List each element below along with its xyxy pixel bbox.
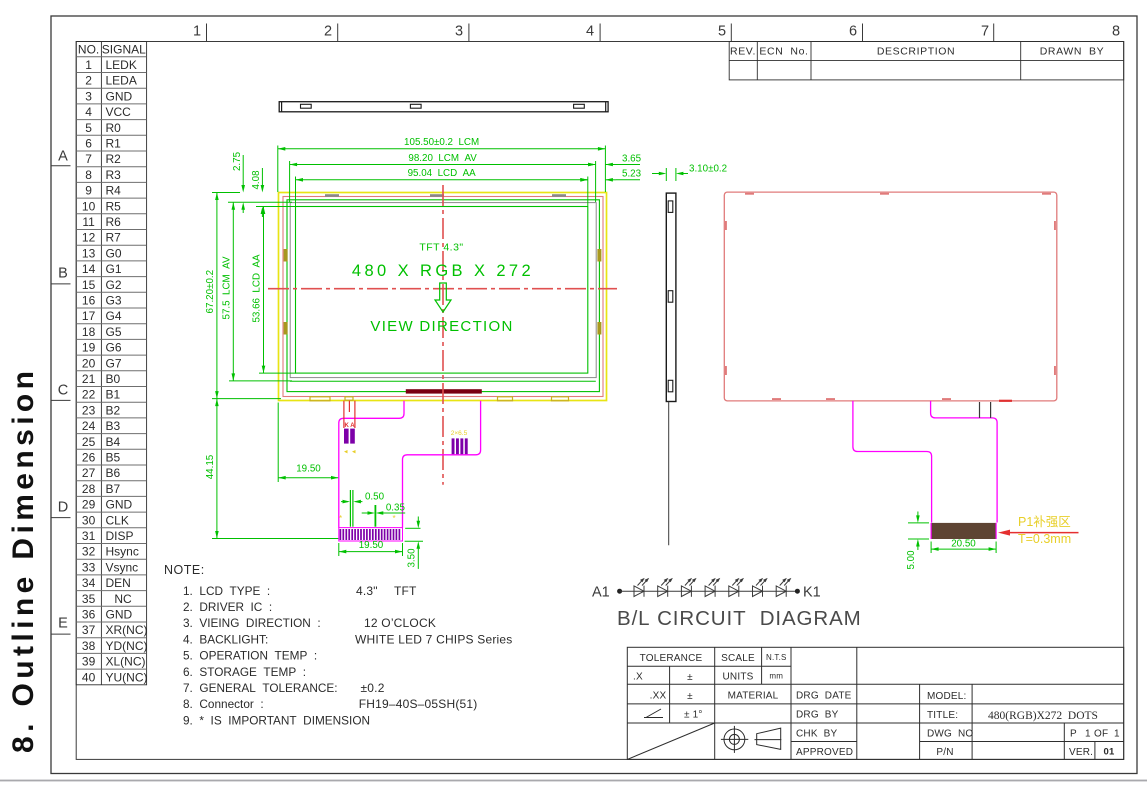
dim 53.66 LCD AA <box>252 207 266 374</box>
svg-text:NC: NC <box>114 592 132 606</box>
dim 0.35 <box>362 503 406 527</box>
svg-text:WHITE LED 7 CHIPS Series: WHITE LED 7 CHIPS Series <box>355 632 513 646</box>
bottom edge tabs <box>310 397 569 401</box>
svg-text:34: 34 <box>82 576 96 590</box>
svg-text:◂: ◂ <box>352 449 356 456</box>
svg-text:27: 27 <box>82 466 96 480</box>
svg-text:9: 9 <box>85 184 92 198</box>
LED D7 <box>776 579 790 597</box>
dim 19.50 upper <box>278 463 338 479</box>
svg-text:2×6.5: 2×6.5 <box>451 430 468 437</box>
horizontal centerline <box>268 288 617 290</box>
dim 67.20 <box>205 193 219 399</box>
LCD glass outline (grey) <box>290 203 596 378</box>
LED D3 <box>681 579 695 597</box>
notes list <box>183 584 513 728</box>
dim 57.5 LCM AV <box>221 202 235 381</box>
svg-text:2. DRIVER IC :: 2. DRIVER IC : <box>183 600 272 614</box>
dim 5.23 <box>580 169 641 182</box>
svg-text:MODEL:: MODEL: <box>927 691 967 702</box>
svg-text:A: A <box>58 149 68 165</box>
svg-text:B1: B1 <box>106 388 121 402</box>
svg-text:B6: B6 <box>106 466 121 480</box>
svg-text:6: 6 <box>849 24 857 40</box>
svg-text:3: 3 <box>85 89 92 103</box>
svg-text:8. Connector :: 8. Connector : <box>183 697 264 711</box>
svg-text:B2: B2 <box>106 403 121 417</box>
svg-text:1: 1 <box>193 24 201 40</box>
svg-text:TOLERANCE: TOLERANCE <box>640 653 703 664</box>
svg-text:NOTE:: NOTE: <box>164 563 205 577</box>
svg-text:22: 22 <box>82 388 96 402</box>
svg-text:30: 30 <box>82 513 96 527</box>
svg-text:REV.: REV. <box>730 46 756 58</box>
svg-text:38: 38 <box>82 639 96 653</box>
svg-text:15: 15 <box>82 278 96 292</box>
svg-text:DRG BY: DRG BY <box>796 710 839 721</box>
svg-text:R2: R2 <box>106 152 122 166</box>
svg-text:2: 2 <box>85 74 92 88</box>
dim 20.50 <box>931 539 996 553</box>
svg-text:R5: R5 <box>106 199 122 213</box>
svg-text:9. * IS IMPORTANT DIMENSIO: 9. * IS IMPORTANT DIMENSION <box>183 713 370 727</box>
svg-text:23: 23 <box>82 403 96 417</box>
svg-text:R6: R6 <box>106 215 122 229</box>
svg-text:TFT 4.3": TFT 4.3" <box>419 242 463 254</box>
dim 4.08 <box>251 168 264 217</box>
dim 95.04 LCD AA <box>296 168 588 181</box>
svg-text:8: 8 <box>85 168 92 182</box>
svg-text:40: 40 <box>82 670 96 684</box>
svg-text:2.75: 2.75 <box>232 151 243 171</box>
svg-text:G7: G7 <box>106 356 122 370</box>
svg-text:FH19–40S–05SH(51): FH19–40S–05SH(51) <box>359 697 478 711</box>
svg-text:G1: G1 <box>106 262 122 276</box>
LCM module outline (yellow bezel) <box>279 193 607 401</box>
wire <box>620 590 798 592</box>
svg-text:1: 1 <box>85 58 92 72</box>
LED D6 <box>753 579 767 597</box>
svg-text:5.00: 5.00 <box>906 550 917 570</box>
svg-text:DESCRIPTION: DESCRIPTION <box>877 46 955 58</box>
LCD AA rect (green) <box>296 207 588 374</box>
svg-text:±: ± <box>687 691 693 702</box>
zone column numbers 1-8 <box>193 24 1120 40</box>
svg-text:4.3": 4.3" <box>356 584 378 598</box>
svg-text:G0: G0 <box>106 246 122 260</box>
svg-text:3.50: 3.50 <box>406 548 417 568</box>
pin table grid <box>76 42 146 685</box>
dim 5.00 <box>906 512 929 570</box>
svg-text:19.50: 19.50 <box>296 463 321 474</box>
svg-text:NO.: NO. <box>78 43 99 57</box>
svg-text:DRAWN BY: DRAWN BY <box>1040 46 1105 58</box>
svg-text:8: 8 <box>1112 24 1120 40</box>
svg-text:11: 11 <box>82 215 95 229</box>
svg-text:98.20 LCM AV: 98.20 LCM AV <box>408 153 477 164</box>
svg-text:SIGNAL: SIGNAL <box>102 43 146 57</box>
svg-text:3. VIEING DIRECTION :: 3. VIEING DIRECTION : <box>183 616 321 630</box>
svg-text:14: 14 <box>82 262 96 276</box>
svg-text:5.23: 5.23 <box>622 169 642 180</box>
svg-text:10: 10 <box>82 199 96 213</box>
middle connector pads (purple) <box>452 438 468 454</box>
svg-text:36: 36 <box>82 608 96 622</box>
svg-text:G5: G5 <box>106 325 122 339</box>
svg-text:1: 1 <box>1114 729 1120 740</box>
svg-text:UNITS: UNITS <box>723 672 754 683</box>
svg-text:DISP: DISP <box>106 529 134 543</box>
svg-text:B7: B7 <box>106 482 121 496</box>
svg-text:25: 25 <box>82 435 96 449</box>
svg-text:B/L CIRCUIT DIAGRAM: B/L CIRCUIT DIAGRAM <box>617 607 862 630</box>
dim 3.50 <box>405 517 423 569</box>
svg-text:APPROVED: APPROVED <box>796 747 853 758</box>
dim extension lines top <box>278 146 606 207</box>
svg-text:3.65: 3.65 <box>622 153 642 164</box>
svg-text:XL(NC): XL(NC) <box>106 655 146 669</box>
svg-text:480 X RGB X 272: 480 X RGB X 272 <box>352 262 534 280</box>
svg-text:24: 24 <box>82 419 96 433</box>
svg-text:1. LCD TYPE :: 1. LCD TYPE : <box>183 584 270 598</box>
svg-text:± 1°: ± 1° <box>684 710 703 721</box>
svg-text:±: ± <box>687 672 693 683</box>
svg-text:32: 32 <box>82 545 96 559</box>
svg-text:B: B <box>58 266 68 282</box>
svg-text:R7: R7 <box>106 231 122 245</box>
svg-text:G4: G4 <box>106 309 122 323</box>
svg-text:B5: B5 <box>106 451 121 465</box>
svg-text:D: D <box>58 500 68 516</box>
svg-text:16: 16 <box>82 294 96 308</box>
svg-text:OF: OF <box>1094 729 1108 740</box>
svg-text:7: 7 <box>85 152 92 166</box>
svg-text:0.50: 0.50 <box>365 491 385 502</box>
svg-text:B4: B4 <box>106 435 121 449</box>
svg-text:K A: K A <box>344 423 355 429</box>
projection symbol circle <box>721 726 748 753</box>
svg-text:GND: GND <box>106 89 133 103</box>
svg-text:18: 18 <box>82 325 96 339</box>
svg-text:DRG DATE: DRG DATE <box>796 691 852 702</box>
svg-text:Vsync: Vsync <box>106 560 139 574</box>
svg-text:2: 2 <box>324 24 332 40</box>
zone row letters A-E <box>58 149 68 632</box>
svg-text:44.15: 44.15 <box>205 454 216 479</box>
dim 105.50 LCM <box>278 137 606 150</box>
zone column tick marks <box>207 24 994 42</box>
svg-text:95.04 LCD AA: 95.04 LCD AA <box>408 168 477 179</box>
angle symbol <box>644 709 663 718</box>
svg-text:57.5 LCM AV: 57.5 LCM AV <box>221 256 232 319</box>
svg-text:4: 4 <box>85 105 92 119</box>
dim 44.15 <box>205 399 219 539</box>
svg-text:3: 3 <box>455 24 463 40</box>
svg-text:VCC: VCC <box>106 105 132 119</box>
svg-text:5. OPERATION TEMP :: 5. OPERATION TEMP : <box>183 649 317 663</box>
outer green rect <box>287 200 599 392</box>
svg-text:TFT: TFT <box>394 584 417 598</box>
rear view edge tick marks <box>725 193 1056 400</box>
svg-text:1: 1 <box>1085 729 1091 740</box>
svg-text:GND: GND <box>106 608 133 622</box>
svg-text:R3: R3 <box>106 168 122 182</box>
dim 19.50 lower <box>339 540 403 556</box>
svg-text:R0: R0 <box>106 121 122 135</box>
title block diagonal <box>627 723 714 759</box>
LCM AV bottom edge (green) <box>290 380 596 382</box>
svg-text:4: 4 <box>586 24 594 40</box>
main FPC connector (purple hatched) <box>339 528 403 541</box>
side view slots <box>668 201 673 392</box>
svg-text:VIEW DIRECTION: VIEW DIRECTION <box>370 318 513 335</box>
zone row tick marks <box>51 166 71 634</box>
svg-text:35: 35 <box>82 592 96 606</box>
bottom grey page edge <box>0 780 1147 782</box>
svg-text:ECN No.: ECN No. <box>759 46 808 58</box>
dim 3.10 <box>652 164 727 182</box>
svg-text:C: C <box>58 383 68 399</box>
LED D1 <box>634 579 648 597</box>
svg-text:19: 19 <box>82 341 96 355</box>
svg-text:39: 39 <box>82 655 96 669</box>
dim 3.65 <box>588 153 642 166</box>
svg-text:TITLE:: TITLE: <box>927 710 958 721</box>
rear connector side edges <box>930 523 932 539</box>
svg-text:67.20±0.2: 67.20±0.2 <box>205 270 216 314</box>
svg-text:29: 29 <box>82 498 96 512</box>
svg-text:37: 37 <box>82 623 96 637</box>
svg-text:4.08: 4.08 <box>251 170 262 190</box>
svg-text:0.35: 0.35 <box>386 503 406 514</box>
svg-text:P1补强区: P1补强区 <box>1018 514 1071 529</box>
projection symbol cone <box>755 728 782 749</box>
svg-text:K1: K1 <box>803 585 821 601</box>
svg-text:28: 28 <box>82 482 96 496</box>
pin table rows <box>82 58 148 684</box>
svg-text:YD(NC): YD(NC) <box>106 639 148 653</box>
svg-text:33: 33 <box>82 560 96 574</box>
svg-text:.XX: .XX <box>650 691 667 702</box>
side view FPC edge line <box>668 402 670 546</box>
svg-text:6: 6 <box>85 137 92 151</box>
svg-text:6. STORAGE TEMP :: 6. STORAGE TEMP : <box>183 665 306 679</box>
svg-text:MATERIAL: MATERIAL <box>728 691 779 702</box>
svg-text:105.50±0.2 LCM: 105.50±0.2 LCM <box>404 137 479 148</box>
svg-text:4. BACKLIGHT:: 4. BACKLIGHT: <box>183 632 268 646</box>
svg-text:13: 13 <box>82 246 96 260</box>
svg-text:21: 21 <box>82 372 96 386</box>
bezel edge tabs <box>284 249 602 335</box>
svg-text:CLK: CLK <box>106 513 129 527</box>
polarizer outline (salmon) <box>283 197 603 397</box>
rear small component side lines <box>979 402 981 418</box>
svg-text:5: 5 <box>85 121 92 135</box>
left dim extension lines <box>212 193 339 539</box>
svg-text:mm: mm <box>769 672 783 681</box>
svg-text:53.66 LCD AA: 53.66 LCD AA <box>252 254 263 323</box>
svg-text:*: * <box>393 514 396 523</box>
svg-text:B0: B0 <box>106 372 121 386</box>
svg-text:12 O’CLOCK: 12 O’CLOCK <box>364 616 436 630</box>
backlight FPC lines (red) <box>344 401 355 428</box>
dim 0.50 <box>341 490 385 527</box>
svg-text:P: P <box>1070 729 1077 740</box>
svg-text:SCALE: SCALE <box>721 653 755 664</box>
FPC cable outline (front) <box>339 401 404 528</box>
svg-text:20: 20 <box>82 356 96 370</box>
LED D2 <box>658 579 672 597</box>
svg-text:Hsync: Hsync <box>106 545 139 559</box>
top view bar <box>279 102 608 112</box>
svg-text:R4: R4 <box>106 184 122 198</box>
svg-text:DWG NO: DWG NO <box>927 729 973 740</box>
dim 98.20 LCM AV <box>290 153 596 166</box>
revision table <box>729 42 1123 80</box>
svg-text:LEDA: LEDA <box>106 74 137 88</box>
svg-text:N.T.S: N.T.S <box>766 653 787 662</box>
svg-text:◂: ◂ <box>344 449 348 456</box>
svg-text:8. Outline Dimension: 8. Outline Dimension <box>7 367 40 753</box>
title block grid <box>627 647 1123 759</box>
reinforcement pointer arrow (red) <box>1008 532 1079 534</box>
svg-text:5: 5 <box>718 24 726 40</box>
svg-text:LEDK: LEDK <box>106 58 137 72</box>
red mark on rear bottom edge <box>999 400 1012 402</box>
svg-text:G3: G3 <box>106 294 122 308</box>
svg-text:E: E <box>58 616 68 632</box>
svg-text:GND: GND <box>106 498 133 512</box>
svg-text:CHK BY: CHK BY <box>796 729 838 740</box>
svg-text:7: 7 <box>981 24 989 40</box>
top edge marks <box>325 194 566 197</box>
svg-text:19.50: 19.50 <box>359 540 384 551</box>
svg-text:YU(NC): YU(NC) <box>106 670 148 684</box>
svg-text:G2: G2 <box>106 278 122 292</box>
rear connector (brown) <box>931 523 996 539</box>
svg-text:17: 17 <box>82 309 96 323</box>
svg-text:20.50: 20.50 <box>951 539 976 550</box>
svg-text:01: 01 <box>1104 747 1115 758</box>
dim 2.75 <box>232 151 245 213</box>
svg-text:VER.: VER. <box>1069 747 1093 758</box>
svg-text:31: 31 <box>82 529 96 543</box>
LED D4 <box>705 579 719 597</box>
svg-text:7. GENERAL TOLERANCE:: 7. GENERAL TOLERANCE: <box>183 681 338 695</box>
node A1 dot <box>617 589 622 594</box>
svg-text:DEN: DEN <box>106 576 131 590</box>
svg-text:R1: R1 <box>106 137 122 151</box>
svg-text:3.10±0.2: 3.10±0.2 <box>689 164 727 175</box>
svg-text:26: 26 <box>82 451 96 465</box>
rear view outline (salmon) <box>724 192 1057 401</box>
svg-text:XR(NC): XR(NC) <box>106 623 148 637</box>
node K1 dot <box>795 589 800 594</box>
svg-text:G6: G6 <box>106 341 122 355</box>
svg-text:A1: A1 <box>592 585 610 601</box>
rear FPC outline (magenta) <box>853 401 932 523</box>
backlight connector pads (purple) <box>344 429 355 444</box>
svg-text:B3: B3 <box>106 419 121 433</box>
view direction arrow <box>435 283 451 312</box>
svg-text:12: 12 <box>82 231 96 245</box>
svg-text:P/N: P/N <box>936 747 953 758</box>
title block labels <box>633 653 1120 758</box>
side view outline <box>666 193 676 401</box>
svg-text:*: * <box>339 514 342 523</box>
LED D5 <box>729 579 743 597</box>
svg-text:±0.2: ±0.2 <box>361 681 385 695</box>
maroon connector bar on module bottom <box>406 389 482 393</box>
vertical centerline <box>442 185 444 485</box>
svg-text:.X: .X <box>633 672 643 683</box>
svg-text:T=0.3mm: T=0.3mm <box>1018 532 1071 546</box>
svg-text:480(RGB)X272 DOTS: 480(RGB)X272 DOTS <box>988 710 1098 722</box>
